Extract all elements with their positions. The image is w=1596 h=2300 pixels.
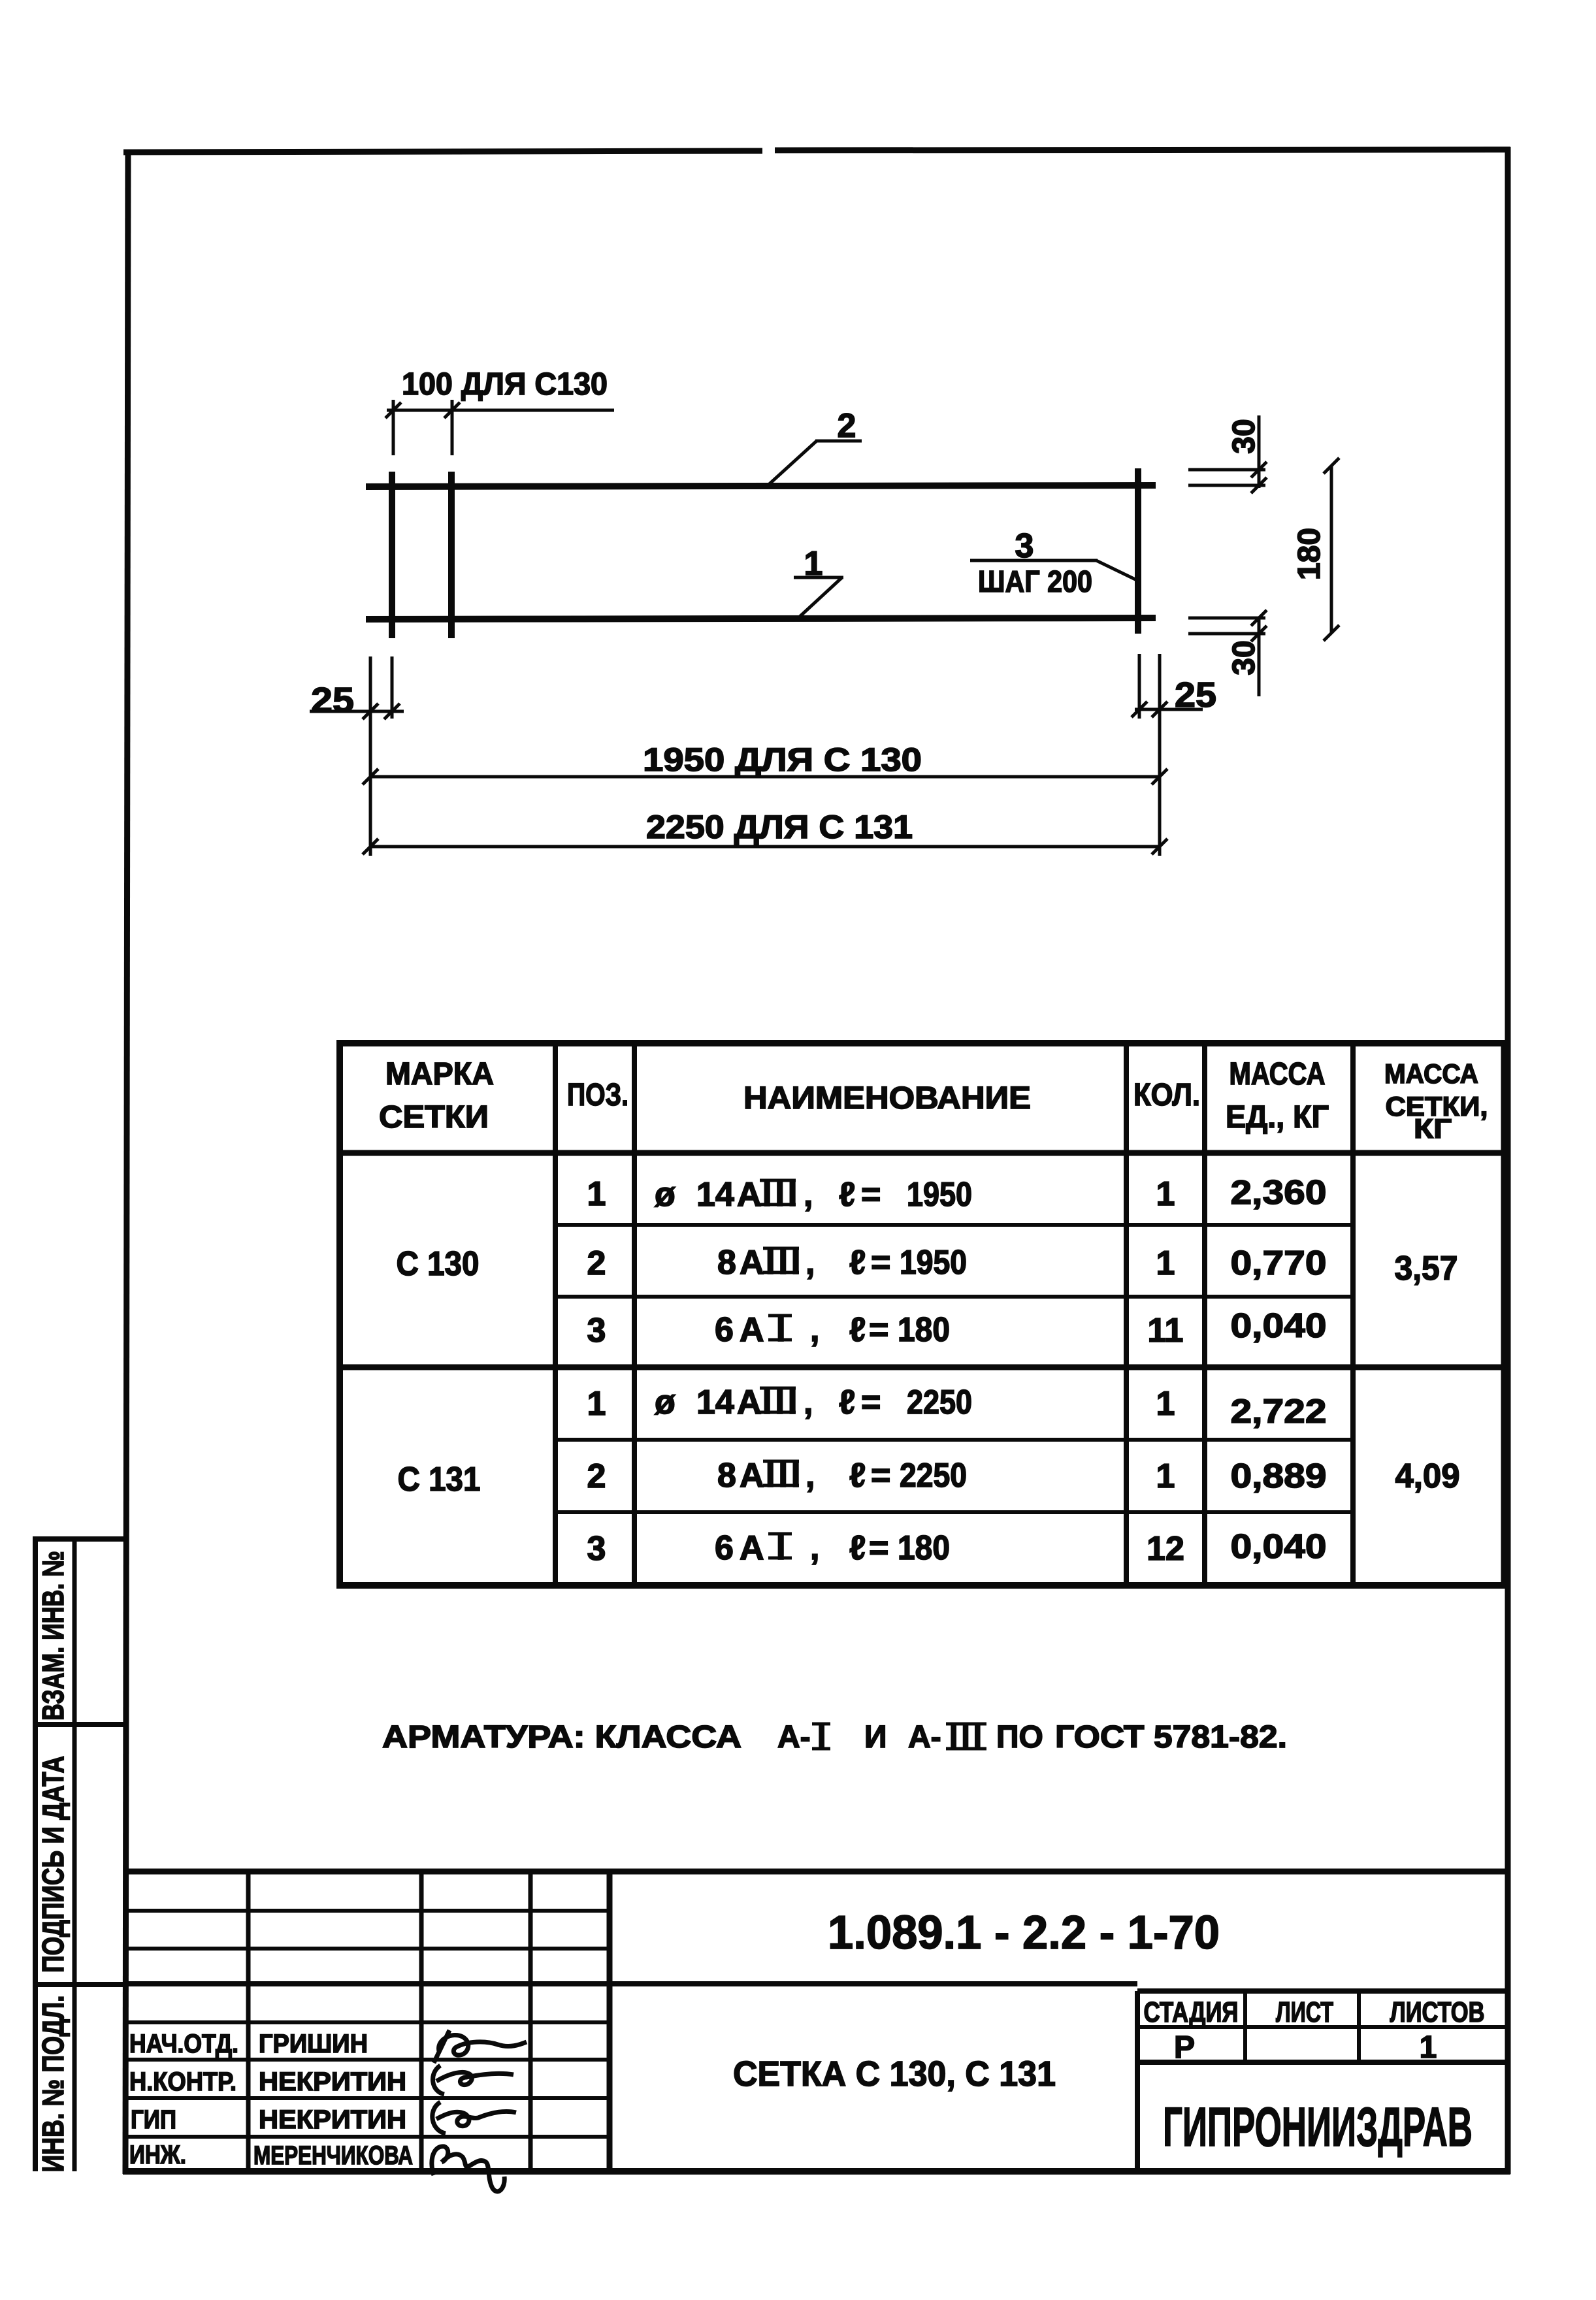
svg-text:=: = (861, 1176, 881, 1214)
svg-text:И: И (864, 1720, 887, 1755)
svg-text:1950: 1950 (900, 1244, 967, 1282)
armature note (382, 1720, 1287, 1755)
svg-text:0,889: 0,889 (1231, 1457, 1327, 1495)
svg-text:СЕТКИ: СЕТКИ (379, 1100, 489, 1135)
LEFT MARGIN STRIP (33, 1539, 125, 2171)
svg-text:А: А (740, 1457, 764, 1495)
svg-text:3: 3 (1015, 527, 1034, 565)
svg-text:КОЛ.: КОЛ. (1133, 1078, 1200, 1112)
dimension 30 bottom right (1188, 610, 1267, 696)
svg-text:2250: 2250 (907, 1384, 972, 1421)
svg-text:8: 8 (717, 1244, 736, 1282)
stamp role labels (129, 2030, 238, 2169)
svg-text:ℓ: ℓ (839, 1384, 855, 1421)
dimension 180 right (1324, 458, 1339, 641)
title block top (125, 1869, 1508, 1875)
Roman numeral serif bars in note (812, 1724, 986, 1749)
sheet frame left (125, 150, 128, 2174)
svg-text:А: А (740, 1311, 764, 1349)
dimension 1950 для C130 (363, 769, 1167, 785)
svg-text:1: 1 (1156, 1244, 1175, 1282)
svg-text:1: 1 (1156, 1457, 1175, 1495)
dimension 2250 для C131 (363, 839, 1167, 854)
svg-text:1: 1 (1420, 2030, 1437, 2065)
svg-text:=: = (869, 1529, 888, 1567)
svg-text:МАРКА: МАРКА (385, 1057, 494, 1092)
longitudinal bar 2 (top) (366, 485, 1156, 487)
svg-text:=: = (861, 1384, 881, 1421)
svg-text:=: = (871, 1457, 890, 1495)
table outer border (336, 1040, 1509, 1046)
svg-text:,: , (806, 1457, 815, 1495)
sheet frame right (1505, 147, 1511, 2174)
svg-text:ИНЖ.: ИНЖ. (129, 2141, 186, 2169)
svg-text:6: 6 (715, 1311, 734, 1349)
cross bar 3 right (1135, 468, 1141, 634)
svg-text:АРМАТУРА: КЛАССА: АРМАТУРА: КЛАССА (382, 1720, 741, 1755)
svg-text:ЕД., КГ: ЕД., КГ (1226, 1100, 1329, 1135)
svg-text:1: 1 (1156, 1175, 1175, 1213)
SPECIFICATION TABLE (336, 1040, 1509, 1589)
svg-text:ГИП: ГИП (131, 2105, 176, 2134)
svg-text:0,770: 0,770 (1231, 1244, 1327, 1282)
svg-text:НЕКРИТИН: НЕКРИТИН (259, 2105, 406, 2134)
svg-text:=: = (869, 1311, 888, 1349)
svg-text:3: 3 (587, 1530, 606, 1568)
svg-text:2: 2 (587, 1457, 606, 1495)
svg-text:25: 25 (1175, 675, 1216, 715)
svg-text:ГОСТ 5781-82.: ГОСТ 5781-82. (1055, 1720, 1287, 1755)
svg-text:180: 180 (898, 1529, 950, 1567)
svg-text:А: А (737, 1384, 762, 1421)
cross bar 3 left (389, 472, 395, 638)
svg-text:2,722: 2,722 (1231, 1393, 1327, 1431)
signature Некритин 2 (432, 2102, 516, 2133)
svg-text:НАИМЕНОВАНИЕ: НАИМЕНОВАНИЕ (743, 1081, 1031, 1116)
svg-text:30: 30 (1227, 419, 1262, 453)
svg-text:1: 1 (804, 545, 823, 583)
table header text (379, 1057, 1329, 1135)
svg-text:ГРИШИН: ГРИШИН (259, 2030, 368, 2058)
svg-text:ШАГ 200: ШАГ 200 (978, 564, 1092, 598)
leader label 2 (766, 441, 862, 487)
svg-text:30: 30 (1227, 640, 1262, 675)
svg-text:1950: 1950 (907, 1176, 972, 1214)
svg-text:ℓ: ℓ (849, 1529, 866, 1567)
signature Гришин (434, 2030, 527, 2063)
svg-text:ВЗАМ. ИНВ. №: ВЗАМ. ИНВ. № (36, 1551, 70, 1721)
svg-text:1: 1 (1156, 1385, 1175, 1423)
svg-text:МЕРЕНЧИКОВА: МЕРЕНЧИКОВА (253, 2141, 413, 2170)
svg-text:НАЧ.ОТД.: НАЧ.ОТД. (129, 2030, 238, 2058)
table column lines (553, 1043, 558, 1585)
svg-text:СТАДИЯ: СТАДИЯ (1144, 1996, 1239, 2028)
svg-text:8: 8 (717, 1457, 736, 1495)
cross bar 3 second (448, 472, 455, 638)
svg-text:ПО: ПО (996, 1720, 1043, 1755)
svg-text:=: = (871, 1244, 890, 1282)
svg-text:14: 14 (696, 1176, 734, 1214)
svg-text:Р: Р (1174, 2030, 1195, 2065)
svg-text:А: А (737, 1176, 762, 1214)
leader label 1 (794, 577, 843, 617)
stadia box (1137, 1988, 1508, 1994)
signature Некритин 1 (433, 2065, 513, 2094)
svg-text:ПОЗ.: ПОЗ. (567, 1078, 628, 1112)
table row lines (555, 1223, 1353, 1227)
svg-text:,: , (806, 1244, 815, 1282)
svg-text:ℓ: ℓ (839, 1176, 855, 1214)
svg-text:ℓ: ℓ (849, 1244, 866, 1282)
dimension 25 right (1132, 654, 1203, 856)
svg-text:МАССА: МАССА (1230, 1057, 1326, 1092)
dimension 30 top right (1188, 415, 1267, 493)
svg-text:4,09: 4,09 (1395, 1457, 1460, 1495)
svg-text:1950 ДЛЯ С 130: 1950 ДЛЯ С 130 (643, 741, 922, 778)
Roman numeral serif bars in table (760, 1180, 799, 1558)
svg-text:С 131: С 131 (398, 1461, 481, 1498)
sheet frame top (123, 151, 762, 152)
svg-text:14: 14 (696, 1384, 734, 1421)
svg-text:2250: 2250 (900, 1457, 967, 1495)
stamp horizontals (125, 1909, 610, 1913)
svg-text:0,040: 0,040 (1231, 1307, 1327, 1345)
svg-text:ℓ: ℓ (849, 1311, 866, 1349)
dimension 25 left (310, 656, 404, 856)
table header line (340, 1150, 1504, 1156)
svg-text:А-: А- (777, 1720, 811, 1755)
svg-text:3,57: 3,57 (1395, 1250, 1458, 1288)
svg-text:180: 180 (898, 1311, 950, 1349)
svg-text:,: , (804, 1176, 813, 1214)
svg-text:А: А (740, 1244, 764, 1282)
svg-text:2,360: 2,360 (1231, 1174, 1327, 1212)
svg-text:2250 ДЛЯ С 131: 2250 ДЛЯ С 131 (646, 809, 913, 845)
svg-text:2: 2 (838, 407, 856, 445)
leader label 3 with шаг 200 (970, 560, 1139, 581)
svg-text:,: , (810, 1311, 819, 1349)
svg-text:0,040: 0,040 (1231, 1528, 1327, 1566)
stamp verticals (246, 1871, 251, 2171)
svg-text:11: 11 (1148, 1312, 1184, 1350)
svg-text:2: 2 (587, 1244, 606, 1282)
table body text (397, 1174, 1460, 1568)
svg-text:ПОДПИСЬ И ДАТА: ПОДПИСЬ И ДАТА (36, 1756, 70, 1973)
svg-text:А-: А- (908, 1720, 941, 1755)
svg-text:С 130: С 130 (397, 1245, 480, 1283)
svg-text:1: 1 (587, 1385, 606, 1423)
svg-text:3: 3 (587, 1312, 606, 1350)
table rows: Наименование column (655, 1176, 972, 1567)
svg-text:ø: ø (655, 1176, 676, 1214)
svg-text:ø: ø (655, 1384, 676, 1421)
svg-text:,: , (804, 1384, 813, 1421)
svg-text:МАССА: МАССА (1384, 1058, 1478, 1089)
doc number cell bottom (125, 1981, 1137, 1986)
svg-text:100 ДЛЯ С130: 100 ДЛЯ С130 (402, 367, 608, 402)
svg-text:1.089.1 - 2.2 - 1-70: 1.089.1 - 2.2 - 1-70 (828, 1907, 1220, 1959)
svg-text:ЛИСТОВ: ЛИСТОВ (1390, 1996, 1485, 2028)
TITLE BLOCK (125, 1871, 1508, 2171)
sheet frame bottom (123, 2168, 1510, 2175)
svg-text:,: , (810, 1529, 819, 1567)
svg-text:1: 1 (587, 1175, 606, 1213)
signature Меренчикова (432, 2146, 504, 2192)
svg-text:КГ: КГ (1414, 1113, 1452, 1144)
svg-text:25: 25 (311, 681, 354, 720)
svg-text:А: А (740, 1529, 764, 1567)
svg-text:6: 6 (715, 1529, 734, 1567)
dimension 100 for C130 (385, 400, 614, 455)
svg-text:Н.КОНТР.: Н.КОНТР. (129, 2067, 236, 2096)
svg-text:НЕКРИТИН: НЕКРИТИН (259, 2067, 406, 2096)
stamp names (253, 2030, 413, 2170)
longitudinal bar 1 (bottom) (366, 618, 1156, 619)
svg-text:ГИПРОНИИЗДРАВ: ГИПРОНИИЗДРАВ (1163, 2096, 1473, 2158)
svg-text:12: 12 (1147, 1530, 1184, 1568)
svg-text:СЕТКА С 130, С 131: СЕТКА С 130, С 131 (733, 2054, 1056, 2094)
svg-text:180: 180 (1292, 528, 1327, 580)
svg-text:ℓ: ℓ (849, 1457, 866, 1495)
svg-text:ИНВ. № ПОДЛ.: ИНВ. № ПОДЛ. (36, 1996, 70, 2173)
svg-text:ЛИСТ: ЛИСТ (1276, 1996, 1333, 2028)
